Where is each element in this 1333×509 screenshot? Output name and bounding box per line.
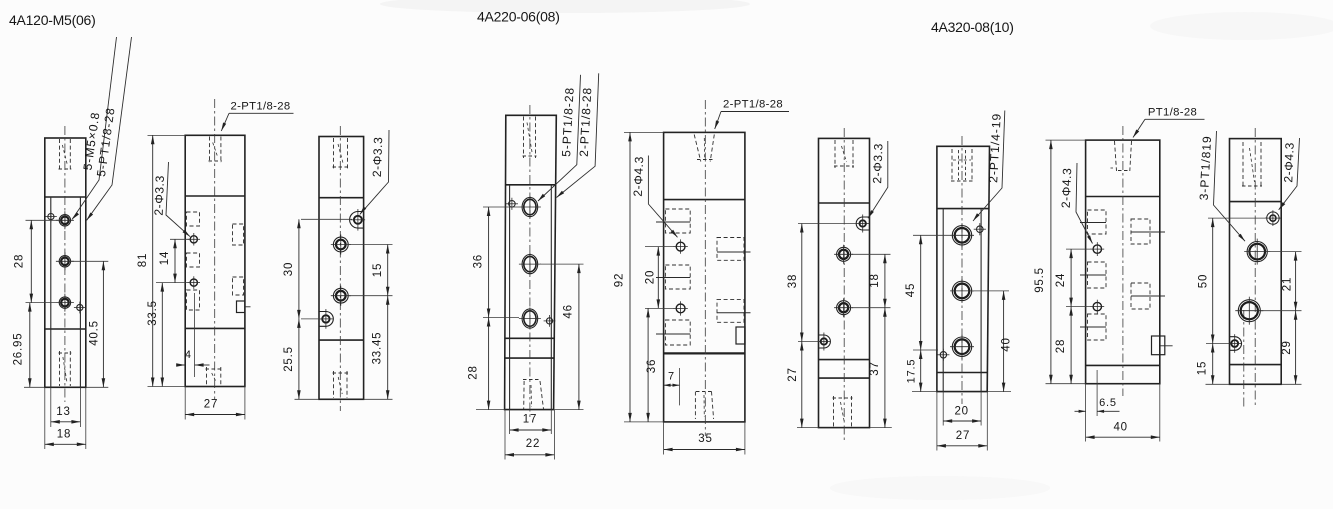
port hole V1-H1 (59, 215, 70, 226)
dimension 28 view8 (1070, 307, 1072, 384)
svg-text:21: 21 (1282, 277, 1294, 291)
svg-text:15: 15 (372, 263, 384, 277)
svg-text:22: 22 (526, 438, 540, 450)
dimension 95.5 view8 (1050, 140, 1052, 384)
svg-text:40: 40 (1001, 337, 1013, 351)
svg-text:17.5: 17.5 (906, 359, 918, 384)
extension line (301, 218, 352, 220)
extension line (70, 260, 108, 262)
svg-text:4A120-M5(06): 4A120-M5(06) (9, 12, 96, 28)
dimension 22 view4 (505, 454, 554, 456)
extension line (184, 387, 186, 420)
svg-text:15: 15 (1197, 361, 1209, 375)
hidden pocket V8-L1 (1088, 210, 1107, 234)
dimension 24 view8 (1070, 249, 1072, 307)
svg-text:30: 30 (283, 262, 295, 276)
svg-text:50: 50 (1197, 274, 1209, 288)
hidden pocket V2-Q2 (233, 277, 244, 295)
svg-text:20: 20 (645, 270, 657, 284)
centerline view9 secondary (1243, 310, 1245, 408)
hidden port view6 top (834, 140, 836, 168)
extension line (1159, 384, 1161, 442)
hidden port view6 bottom (833, 396, 835, 427)
dimension 40 view8 (1086, 436, 1160, 438)
hidden port view2 bottom (206, 367, 208, 385)
extension line (244, 387, 246, 420)
leader 5-M5x0.8 (72, 37, 117, 220)
hole V2-A (190, 236, 197, 243)
dimension 18 view1 (45, 443, 86, 445)
svg-text:2-Φ4.3: 2-Φ4.3 (631, 156, 646, 197)
centerline view2 (214, 99, 216, 399)
extension line (553, 410, 555, 460)
dimension 25.5 view3 (298, 319, 300, 399)
hidden port view3 top (333, 138, 335, 169)
svg-text:20: 20 (954, 406, 968, 418)
hidden port view1 top (59, 139, 61, 171)
port hole V6-C (837, 301, 851, 315)
extension line (852, 307, 891, 309)
hidden port view9 top (1242, 142, 1244, 188)
dimension 27 view6 (801, 342, 803, 428)
svg-text:27: 27 (956, 430, 970, 442)
dimension 30 view3 (298, 219, 300, 319)
pocket seat lines view5 right (717, 251, 751, 253)
view1 inner edges (50, 197, 52, 387)
extension line (85, 387, 87, 449)
svg-text:2-Φ3.3: 2-Φ3.3 (370, 136, 385, 177)
extension line (1261, 310, 1302, 312)
centerline view9 main (1254, 128, 1256, 408)
leader 2-PHI4.3 view9 (1279, 138, 1300, 210)
extension line (797, 427, 819, 429)
centerline view1 (64, 126, 66, 402)
extension line (1206, 343, 1228, 345)
extension line (1085, 384, 1087, 442)
port hole V3-B (333, 237, 348, 252)
svg-text:PT1/8-28: PT1/8-28 (1148, 106, 1197, 118)
leader 2-PHI4.3 view5 (648, 156, 677, 238)
hidden port view5 bottom (694, 392, 696, 420)
dimension 33.5 view2 (161, 283, 163, 387)
hole V9-D 4.3 (1231, 340, 1238, 347)
manual override box view5 (736, 327, 745, 344)
extension line (148, 386, 186, 388)
svg-text:40.5: 40.5 (88, 320, 100, 346)
hidden pocket V2-Q1 (233, 224, 244, 245)
extension line (540, 263, 584, 265)
dimension 20 view5 (657, 247, 659, 309)
port hole V9-B (1247, 242, 1267, 262)
screw hole V1-S1 (48, 214, 54, 220)
centerline view4 (529, 105, 531, 420)
svg-text:14: 14 (159, 251, 171, 265)
hole V5-B 4.3 (676, 304, 685, 313)
hidden port view3 bottom (333, 371, 335, 398)
hole V2-B (190, 279, 197, 286)
dimension 6.5 view8 (1075, 410, 1086, 412)
centerline view5 (704, 100, 706, 436)
port hole V6-B (837, 247, 851, 261)
svg-text:18: 18 (869, 273, 881, 287)
extension line (852, 253, 891, 255)
dimension 29 view9 (1295, 311, 1297, 385)
extension line (936, 392, 938, 451)
svg-text:2-Φ4.3: 2-Φ4.3 (1281, 142, 1296, 183)
pocket seat lines view5 left (656, 221, 690, 223)
extension line (645, 307, 674, 309)
svg-text:18: 18 (57, 429, 71, 441)
extension line (1066, 248, 1091, 250)
extension line (50, 387, 52, 427)
hidden pocket V8-R1 (1131, 219, 1150, 244)
dimension 14 view2 (174, 239, 176, 282)
svg-text:92: 92 (614, 273, 626, 287)
port hole V7-H1 (952, 226, 971, 245)
extension line (24, 386, 45, 388)
hidden pocket V5-Q2 (717, 300, 744, 323)
dimension 17 view4 (510, 429, 552, 431)
svg-text:28: 28 (14, 254, 26, 268)
svg-text:7: 7 (668, 371, 675, 383)
dimension 37 view6 (884, 308, 886, 428)
pocket seat lines view8 left (1080, 222, 1106, 224)
hidden port view4 bottom trapezoid (523, 381, 525, 409)
extension line (26, 219, 59, 221)
dimension 17.5 view7 (920, 350, 922, 392)
screw hole V1-S2 (77, 304, 83, 310)
hidden port view2 top (209, 137, 211, 164)
extension line (624, 421, 664, 423)
extension line (148, 134, 186, 136)
screw hole V7-S2 (940, 352, 946, 358)
hidden port view5 top (694, 135, 701, 162)
extension line (483, 317, 519, 319)
extension line (44, 387, 46, 449)
svg-text:28: 28 (468, 365, 480, 379)
extension line (1281, 383, 1301, 385)
dimension 92 view5 (629, 132, 631, 422)
dimension 18 view6 (884, 254, 886, 307)
svg-text:81: 81 (137, 253, 149, 267)
view4 inner edges (509, 185, 511, 410)
leader 2-PT1/8-28 view4 (557, 73, 599, 197)
leader 2-PHI3.3 view3 (360, 130, 389, 214)
hidden pocket V8-R2 (1131, 283, 1150, 309)
extension line (624, 131, 664, 133)
dimension 7 view5 (664, 384, 680, 386)
centerline view3 (339, 126, 341, 411)
extension line (348, 244, 393, 246)
extension line (364, 398, 393, 400)
extension line (156, 282, 190, 284)
extension line (1046, 383, 1086, 385)
pocket seat lines view8 right (1131, 231, 1165, 233)
view2 body outline (185, 135, 245, 386)
svg-text:4: 4 (185, 349, 192, 361)
label 2-PT1/8-28 view2 (229, 112, 294, 114)
hole V3-A 3.3 (354, 216, 362, 224)
hole V3-D 3.3 (322, 315, 329, 322)
leader 3-PT1/819 view9 (1214, 131, 1246, 241)
svg-text:25.5: 25.5 (283, 346, 295, 372)
svg-text:33.5: 33.5 (147, 300, 159, 326)
port hole V4-H2 (522, 255, 538, 274)
dimension 33.45 view3 (387, 296, 389, 400)
centerline view8 (1122, 126, 1124, 396)
scan smudge right (1150, 12, 1333, 40)
svg-text:37: 37 (869, 361, 881, 375)
extension line (972, 290, 1009, 292)
extension line (1206, 383, 1230, 385)
hidden pocket V8-L3 (1088, 314, 1107, 340)
extension line (504, 410, 506, 460)
dimension 15 view9 (1212, 344, 1214, 385)
view3 body outline (319, 137, 364, 400)
svg-text:28: 28 (1055, 339, 1067, 353)
dimension 40 view7 (1003, 291, 1005, 392)
hole V8-B 4.3 (1093, 302, 1101, 310)
extension line (744, 422, 746, 455)
extension line (349, 295, 393, 297)
dimension 45 view7 (920, 235, 922, 350)
svg-text:24: 24 (1055, 273, 1067, 287)
port hole V7-H2 (952, 281, 971, 300)
leader 2-PHI4.3 view8 (1076, 163, 1093, 244)
dimension 40.5 view1 (102, 261, 104, 387)
view6 body outline (819, 138, 870, 427)
manual override box view8 (1152, 336, 1165, 355)
extension line (79, 387, 81, 427)
hidden pocket V5-P2 (665, 265, 690, 289)
port hole V4-H3 (522, 309, 538, 328)
dimension 20 view7 (943, 420, 981, 422)
dimension 27 view7 (937, 445, 987, 447)
dimension 27 view2 (185, 414, 245, 416)
dimension 46 view4 (578, 264, 580, 410)
port hole V1-H2 (59, 256, 70, 267)
extension line (1096, 370, 1098, 416)
svg-text:36: 36 (646, 359, 658, 373)
screw hole V7-S1 (977, 226, 984, 233)
svg-text:4A220-06(08): 4A220-06(08) (477, 9, 560, 25)
svg-text:40: 40 (1113, 422, 1127, 434)
extension line (1046, 139, 1086, 141)
extension line (509, 410, 511, 434)
port hole V9-C (1238, 300, 1260, 322)
svg-text:95.5: 95.5 (1034, 267, 1046, 293)
scan smudge bottom (830, 476, 1050, 500)
leader 2-PT1/4-19 view7 (973, 111, 1005, 222)
svg-text:17: 17 (523, 414, 537, 426)
extension line (986, 392, 988, 451)
svg-text:2-Φ3.3: 2-Φ3.3 (152, 175, 167, 216)
view8 body outline (1086, 140, 1160, 384)
centerline view7 (961, 136, 963, 404)
dimension 26.95 view1 (29, 303, 31, 388)
extension line (913, 234, 950, 236)
svg-text:13: 13 (56, 406, 70, 418)
hidden pocket V2-P1 (187, 212, 200, 226)
view1 body outline (45, 138, 86, 387)
hole V6-A 3.3 (860, 220, 866, 226)
svg-text:27: 27 (787, 367, 799, 381)
view4 body outline (505, 115, 557, 409)
screw hole V4-S2 (546, 318, 552, 324)
svg-text:2-PT1/8-28: 2-PT1/8-28 (723, 99, 783, 111)
svg-text:33.45: 33.45 (372, 332, 384, 365)
leader 2-PHI3.3 view2 (166, 162, 190, 237)
extension line (645, 246, 674, 248)
hole V5-A 4.3 (676, 242, 685, 251)
extension line (679, 368, 681, 405)
label PT1/8-28 view8 (1145, 118, 1205, 120)
extension line (798, 341, 820, 343)
port hole V3-C (333, 288, 348, 303)
scan smudge top (380, 0, 750, 13)
svg-text:2-Φ3.3: 2-Φ3.3 (870, 143, 885, 184)
hidden pocket V5-P1 (665, 209, 690, 233)
view5 body outline (664, 132, 745, 422)
centerline view6 (843, 128, 845, 440)
view7 body outline (937, 146, 990, 391)
view5 thick division (664, 352, 745, 354)
port hole V7-H3 (952, 337, 971, 356)
view9 body outline (1230, 139, 1282, 385)
label 2-PT1/8-28 view5 (721, 111, 789, 113)
dimension 38 view6 (801, 224, 803, 342)
hole V6-D 3.3 (821, 338, 827, 344)
manual override box view2 (237, 301, 245, 313)
extension line (1208, 217, 1267, 219)
extension line (912, 391, 937, 393)
dimension 13 view1 (51, 421, 81, 423)
extension line (798, 223, 857, 225)
svg-text:4A320-08(10): 4A320-08(10) (931, 19, 1014, 35)
extension line (1267, 251, 1302, 253)
hidden port view7 top (951, 149, 953, 181)
screw hole V4-S1 (509, 201, 516, 208)
extension line (476, 409, 505, 411)
leader 5-PT1/8-28 view4 (538, 75, 581, 201)
svg-text:45: 45 (905, 283, 917, 297)
dimension 35 view5 (664, 449, 745, 451)
extension line (194, 293, 196, 377)
hole V9-A 4.3 (1267, 212, 1279, 224)
svg-text:29: 29 (1281, 340, 1293, 354)
hidden port view1 bottom (59, 351, 61, 386)
svg-text:2-Φ4.3: 2-Φ4.3 (1059, 167, 1074, 208)
svg-text:38: 38 (787, 274, 799, 288)
leader 5-PT1/8-28 (87, 37, 132, 220)
dimension 4 view2 (177, 364, 185, 366)
view7 inner edges (942, 209, 944, 392)
dimension 28 view1 (30, 220, 32, 302)
extension line (301, 318, 321, 320)
dimension 81 view2 (152, 135, 154, 386)
hidden pocket V5-P3 (665, 320, 690, 345)
hidden pocket V8-L2 (1088, 262, 1107, 288)
svg-text:6.5: 6.5 (1099, 397, 1117, 409)
dimension 36 view5 (647, 308, 649, 422)
extension line (86, 386, 109, 388)
svg-text:36: 36 (473, 254, 485, 268)
dimension 50 view9 (1212, 218, 1214, 343)
port hole V4-H1 (522, 197, 538, 216)
hidden pocket V5-Q1 (717, 238, 744, 261)
extension line (550, 410, 552, 434)
dimension 28 view4 (488, 318, 490, 410)
leader 2-PHI3.3 view6 (868, 141, 888, 218)
svg-text:26.95: 26.95 (13, 333, 25, 366)
extension line (870, 427, 892, 429)
extension line (942, 392, 944, 426)
port hole V1-H3 (59, 297, 70, 308)
svg-text:35: 35 (698, 433, 712, 445)
dimension 15 view3 (387, 245, 389, 296)
dimension 21 view9 (1295, 252, 1297, 311)
hidden pocket V2-P2 (187, 253, 200, 267)
hole V8-A 4.3 (1093, 245, 1101, 253)
extension line (483, 206, 519, 208)
extension line (170, 238, 190, 240)
svg-text:27: 27 (204, 399, 218, 411)
extension line (913, 349, 938, 351)
extension line (663, 422, 665, 455)
extension line (554, 409, 584, 411)
extension line (987, 391, 1011, 393)
hidden port view8 top (1115, 141, 1117, 171)
extension line (26, 302, 57, 304)
dimension 36 view4 (488, 207, 490, 318)
hidden port view4 top (523, 117, 525, 159)
extension line (1066, 306, 1091, 308)
hidden pocket V2-P3 (187, 290, 200, 310)
extension line (980, 392, 982, 426)
extension line (295, 398, 320, 400)
svg-text:2-PT1/8-28: 2-PT1/8-28 (230, 101, 290, 113)
svg-text:46: 46 (562, 304, 574, 318)
